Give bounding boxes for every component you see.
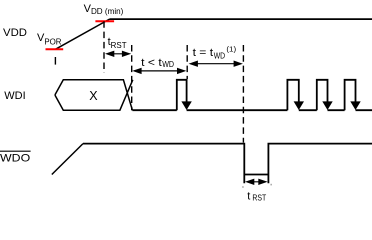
WDI pulse 2 arrow <box>294 101 304 110</box>
dashed line mid <box>186 45 188 79</box>
t&lt;tWD arrow <box>132 68 186 74</box>
svg-text:WD: WD <box>162 60 174 69</box>
svg-text:VPOR: VPOR <box>37 32 62 47</box>
WDI bus hexagon <box>55 80 133 110</box>
svg-text:tRST: tRST <box>108 36 127 50</box>
WDO overline <box>0 150 31 152</box>
VDD high wire <box>110 18 372 20</box>
WDI pulse 3 arrow <box>322 101 332 110</box>
dashed line right <box>242 45 244 143</box>
WDI pulse 4 arrow <box>350 101 360 110</box>
dashed drop at VDD(min) <box>103 21 105 73</box>
WDI pulse 1 <box>177 80 187 110</box>
WDI pulse 3 <box>317 80 328 110</box>
gray tick right <box>271 184 272 186</box>
svg-text:t = t: t = t <box>193 47 214 59</box>
VPOR red tick <box>46 48 64 50</box>
svg-text:X: X <box>89 89 98 103</box>
svg-text:tRST: tRST <box>247 190 266 202</box>
dashed line at tRST right <box>131 45 133 110</box>
WDO high wire right <box>268 144 372 184</box>
VDD ramp <box>55 19 109 49</box>
tRST bottom arrow <box>245 179 268 185</box>
svg-text:(1): (1) <box>226 45 236 54</box>
svg-text:VDD (min): VDD (min) <box>84 3 124 16</box>
t=tWD arrow <box>189 61 243 67</box>
WDI pulse 1 arrow <box>181 101 191 110</box>
WDI pulse 2 <box>287 80 298 110</box>
VDD(min) red tick <box>95 20 114 22</box>
dashed drop at VPOR <box>54 57 56 65</box>
WDO high wire left <box>83 144 244 184</box>
WDI pulse 4 <box>345 80 356 110</box>
svg-text:WD: WD <box>214 51 226 60</box>
svg-text:t < t: t < t <box>141 57 162 69</box>
gray tick left <box>242 186 243 188</box>
svg-text:WDI: WDI <box>4 90 25 102</box>
svg-text:WDO: WDO <box>0 152 31 164</box>
WDO ramp <box>52 144 83 175</box>
svg-text:VDD: VDD <box>3 27 27 39</box>
tRST top arrow <box>105 51 131 57</box>
WDO low wire <box>244 174 268 176</box>
WDI low wire <box>132 109 372 111</box>
